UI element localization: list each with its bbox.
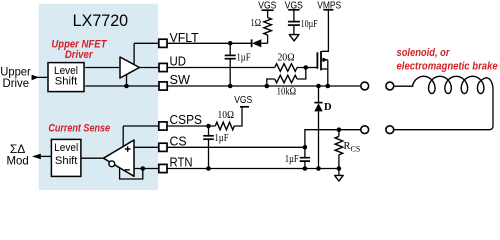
svg-text:Drive: Drive	[3, 76, 30, 90]
svg-text:10µF: 10µF	[301, 18, 318, 30]
wire UD to gate resistor	[167, 67, 275, 69]
terminal circle solenoid top	[386, 82, 394, 90]
wire comparator feedback	[120, 168, 143, 179]
junction RTN/C4	[303, 166, 308, 171]
svg-text:CS: CS	[170, 133, 187, 148]
resistor R2 20Ω	[275, 52, 306, 72]
svg-text:LX7720: LX7720	[73, 12, 129, 30]
junction CSPS/C3	[206, 124, 211, 129]
wire gate	[306, 67, 318, 69]
wire RTN rail	[167, 168, 339, 170]
junction C1/SW	[228, 84, 233, 89]
power VGS (CSPS)	[234, 94, 252, 107]
buffer amplifier (upper NFET driver)	[120, 57, 139, 78]
wire VFLT to buffer top	[133, 43, 135, 64]
svg-text:Level: Level	[54, 142, 78, 154]
pin -	[125, 169, 130, 171]
terminal SW	[159, 82, 167, 90]
svg-text:20Ω: 20Ω	[277, 52, 294, 64]
svg-text:CS: CS	[351, 145, 361, 154]
svg-text:10Ω: 10Ω	[218, 109, 235, 121]
power VGS (over R1)	[258, 0, 276, 11]
terminal UD	[159, 63, 167, 71]
wire SW right	[167, 85, 361, 87]
wire Upper Drive input arrow	[32, 75, 48, 81]
capacitor C2 10uF	[288, 10, 318, 35]
level shift U1 (upper)	[48, 63, 84, 92]
node Upper Drive	[0, 65, 31, 91]
wire CS right	[167, 146, 305, 148]
svg-text:1µF: 1µF	[237, 52, 251, 64]
terminal CSPS	[159, 122, 167, 130]
resistor R5 Rcs	[335, 130, 360, 169]
wire CSPS	[123, 125, 159, 127]
power VMPS	[317, 0, 341, 11]
junction Rcs top	[337, 127, 342, 132]
junction CS node	[303, 145, 308, 150]
wire comparator output to level shift	[81, 157, 104, 159]
svg-text:Mod: Mod	[7, 154, 29, 168]
wire solenoid return	[394, 87, 493, 130]
svg-text:1Ω: 1Ω	[251, 17, 262, 29]
svg-text:D: D	[324, 102, 332, 113]
junction RTN/C3	[206, 166, 211, 171]
capacitor C4 1uF	[285, 147, 310, 168]
svg-text:R: R	[344, 141, 351, 152]
diode D1 freewheel	[314, 86, 332, 169]
node ΣΔ Mod	[7, 142, 29, 168]
junction gate node	[304, 65, 309, 70]
resistor R1 1Ω	[251, 10, 272, 43]
junction SW/source	[326, 84, 331, 89]
svg-text:VFLT: VFLT	[170, 30, 199, 45]
level shift U2 (lower)	[51, 139, 81, 176]
wire SW	[85, 85, 159, 87]
junction buffer/SW	[124, 84, 129, 89]
svg-text:10kΩ: 10kΩ	[277, 86, 297, 98]
svg-text:1µF: 1µF	[285, 153, 299, 165]
wire VFLT	[134, 42, 159, 44]
svg-text:electromagnetic brake: electromagnetic brake	[397, 60, 498, 72]
wire UD	[139, 67, 159, 69]
inductor L1 solenoid coil	[413, 76, 493, 93]
wire solenoid lead-in	[394, 85, 414, 87]
wire VFLT to bootstrap	[167, 42, 252, 44]
resistor R4 10Ω	[215, 107, 242, 130]
svg-text:VMPS: VMPS	[317, 0, 341, 11]
svg-text:VGS: VGS	[285, 0, 303, 11]
svg-text:UD: UD	[170, 53, 187, 68]
resistor R3 10kΩ	[267, 68, 306, 98]
junction SW/D bus	[316, 84, 321, 89]
terminal circle SW out	[361, 82, 369, 90]
power VGS (over C2)	[285, 0, 303, 11]
wire buffer bottom to SW	[126, 75, 128, 86]
chip body LX7720	[39, 4, 158, 190]
wire ΣΔ output arrow	[32, 154, 51, 160]
wire CSPS to comparator top	[122, 126, 124, 146]
svg-text:CSPS: CSPS	[170, 112, 203, 127]
ground (RTN)	[335, 169, 344, 182]
svg-text:VGS: VGS	[258, 0, 276, 11]
svg-text:Current Sense: Current Sense	[48, 122, 110, 134]
terminal RTN	[159, 164, 167, 172]
terminal VFLT	[159, 39, 167, 47]
svg-text:Driver: Driver	[65, 49, 93, 61]
wire CS to sense node	[305, 130, 361, 148]
svg-text:solenoid, or: solenoid, or	[397, 47, 451, 59]
junction R3/SW	[265, 84, 270, 89]
wire RTN	[134, 168, 159, 170]
bubble on comparator lower edge	[109, 161, 115, 167]
svg-text:Shift: Shift	[55, 155, 78, 167]
svg-text:SW: SW	[170, 72, 191, 87]
junction VFLT/C1	[228, 41, 233, 46]
pin +	[125, 146, 130, 152]
terminal CS	[159, 143, 167, 151]
ground (C2)	[289, 35, 299, 41]
capacitor C1 1uF	[225, 43, 251, 86]
capacitor C3 1uF	[203, 126, 228, 169]
junction RTN/D1	[316, 166, 321, 171]
terminal circle CS out	[361, 126, 369, 134]
terminal circle solenoid bottom	[386, 126, 394, 134]
comparator U3 (current sense)	[104, 140, 135, 176]
wire CS	[134, 146, 159, 148]
svg-text:Shift: Shift	[55, 76, 78, 88]
wire CSPS to filter	[167, 125, 215, 127]
junction RTN/Rcs	[337, 166, 342, 171]
svg-text:VGS: VGS	[234, 94, 252, 106]
svg-text:RTN: RTN	[170, 155, 193, 170]
diode D2 bootstrap	[252, 39, 268, 47]
junction RTN / comparator feedback	[141, 166, 146, 171]
svg-text:1µF: 1µF	[215, 132, 229, 144]
wire level-shift to buffer input	[85, 67, 120, 69]
label solenoid, or electromagnetic brake	[397, 47, 498, 72]
transistor Q1 NFET	[317, 10, 328, 86]
label Upper NFET Driver	[51, 39, 107, 62]
